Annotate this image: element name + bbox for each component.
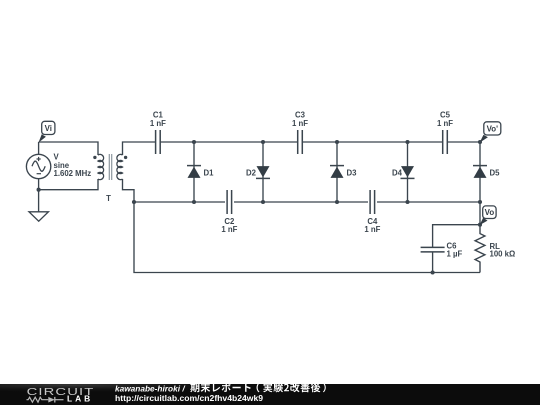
flag Vi [39, 121, 55, 142]
capacitor C6 [421, 242, 463, 273]
svg-text:1.602 MHz: 1.602 MHz [54, 169, 92, 178]
wire secondary bottom [123, 179, 135, 202]
wire D5 to Vo node [479, 202, 481, 225]
svg-text:1 nF: 1 nF [150, 119, 166, 128]
svg-text:LAB: LAB [67, 394, 93, 404]
flag Vo [480, 206, 497, 225]
svg-text:D4: D4 [392, 168, 403, 177]
diode D1 [187, 142, 214, 202]
svg-text:1 nF: 1 nF [437, 119, 453, 128]
diode D4 [392, 142, 414, 202]
node D5 bottom [478, 200, 482, 204]
svg-text:D1: D1 [204, 168, 215, 177]
svg-text:1 nF: 1 nF [221, 225, 237, 234]
diode D2 [246, 142, 270, 202]
svg-text:kawanabe-hiroki /: kawanabe-hiroki / [115, 383, 186, 393]
svg-text:D2: D2 [246, 168, 257, 177]
wire top rail C5 to corner [447, 141, 480, 143]
capacitor C2 [221, 190, 237, 234]
wire top rail C1 to C3 [160, 141, 298, 143]
wire Vo node to C6 [433, 225, 480, 248]
capacitor C5 [437, 111, 453, 154]
wire top loop [39, 142, 98, 155]
wire bottom loop [39, 179, 98, 190]
node D4 bottom [405, 200, 409, 204]
transformer T secondary winding [117, 154, 123, 179]
node D2 bottom [261, 200, 265, 204]
wire bottom return [134, 202, 480, 273]
node D5 top corner [478, 140, 482, 144]
svg-text:1 µF: 1 µF [447, 250, 463, 259]
label V sine 1.602 MHz [54, 152, 92, 178]
transformer primary polarity dot [93, 156, 96, 159]
svg-text:D5: D5 [490, 168, 501, 177]
node D1 top [192, 140, 196, 144]
svg-text:http://circuitlab.com/cn2fhv4b: http://circuitlab.com/cn2fhv4b24wk9 [115, 393, 263, 403]
wire secondary top to C1 [123, 142, 156, 155]
transformer core [109, 154, 111, 180]
logo resistor-diode glyph [27, 397, 64, 403]
capacitor C3 [292, 111, 308, 154]
transformer secondary polarity dot [124, 156, 127, 159]
footer bar [0, 384, 540, 405]
flag Vo' [480, 122, 501, 143]
diode D3 [330, 142, 357, 202]
svg-text:100 kΩ: 100 kΩ [490, 250, 516, 259]
wire source top lead [38, 142, 40, 154]
wire source bottom lead [38, 179, 40, 190]
capacitor C1 [150, 111, 166, 154]
svg-text:Vo': Vo' [487, 124, 498, 133]
resistor RL [475, 225, 515, 273]
node D3 top [335, 140, 339, 144]
voltage source V1 [26, 154, 50, 178]
diode D5 [473, 142, 500, 202]
node C6 bottom [431, 270, 435, 274]
node D1 bottom [192, 200, 196, 204]
svg-text:T: T [106, 194, 111, 203]
svg-text:1 nF: 1 nF [364, 225, 380, 234]
svg-text:Vo: Vo [485, 208, 495, 217]
node D3 bottom [335, 200, 339, 204]
ground [29, 190, 48, 222]
node source bottom [37, 188, 41, 192]
node Vo [478, 223, 482, 227]
footer japanese title [190, 383, 326, 393]
node secondary bottom rail [132, 200, 136, 204]
wire middle rail [134, 201, 480, 203]
svg-text:1 nF: 1 nF [292, 119, 308, 128]
capacitor C4 [364, 190, 380, 234]
node D2 top [261, 140, 265, 144]
svg-text:Vi: Vi [45, 124, 52, 133]
node D4 top [405, 140, 409, 144]
svg-text:D3: D3 [347, 168, 358, 177]
transformer T primary winding [98, 154, 104, 179]
wire top rail C3 to C5 [302, 141, 442, 143]
